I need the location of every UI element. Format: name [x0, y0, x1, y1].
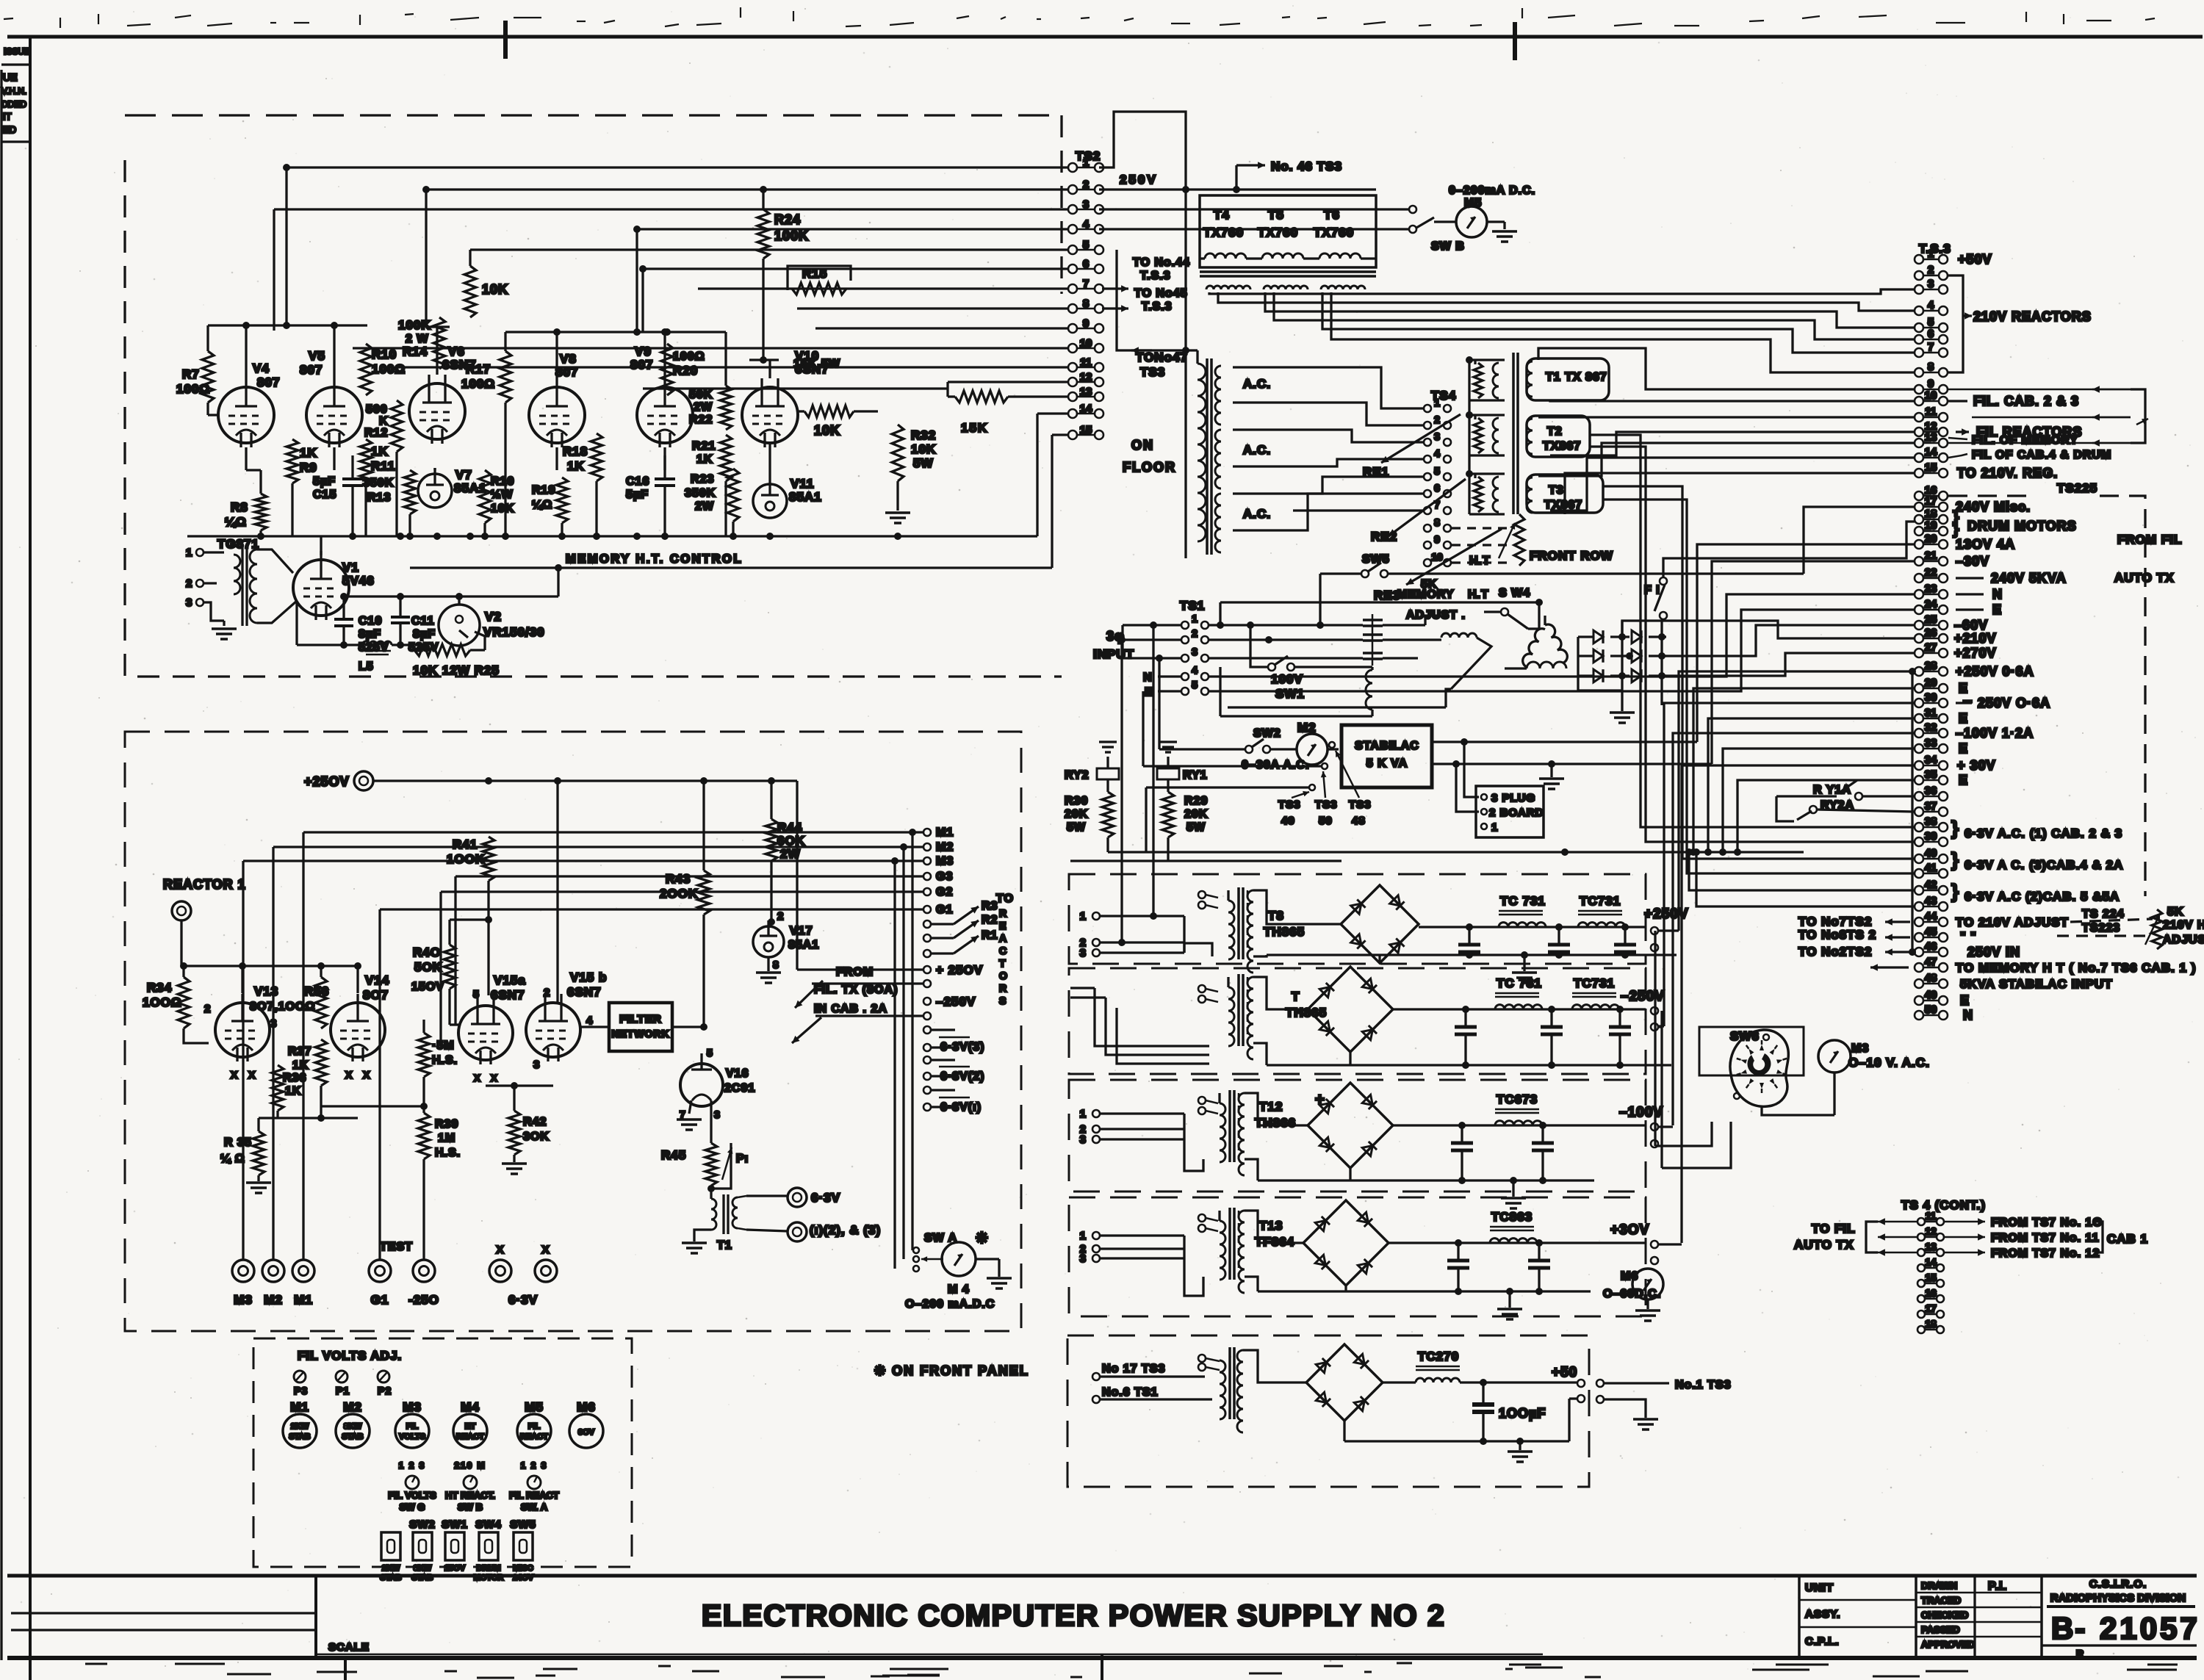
terminal TS4-1	[1424, 405, 1431, 412]
terminal TS3-36	[1915, 792, 1923, 801]
terminal TS3-46	[1915, 948, 1923, 956]
rectifier diode rows	[1578, 635, 1593, 638]
channel input 1	[1092, 1232, 1100, 1239]
svg-text:M6: M6	[1621, 1270, 1638, 1283]
stabilac input terminals	[1329, 742, 1335, 748]
svg-text:G2: G2	[936, 886, 953, 898]
panel meter M3	[395, 1414, 429, 1448]
svg-text:R12: R12	[364, 427, 388, 439]
resistor R18	[591, 433, 602, 481]
toggle switch 2KW STAB	[381, 1532, 400, 1560]
svg-text:APPROVED: APPROVED	[1921, 1639, 1975, 1650]
terminal TS3-40	[1915, 854, 1923, 863]
terminal TS3-11	[1915, 413, 1923, 422]
transformer T TH865	[1228, 987, 1234, 1046]
svg-text:M2: M2	[343, 1400, 362, 1414]
phase wires to contactor	[1209, 624, 1363, 626]
svg-text:TS223: TS223	[2082, 922, 2120, 934]
svg-text:1K: 1K	[371, 444, 389, 458]
svg-text:R: R	[999, 982, 1007, 994]
channel input 2	[1092, 939, 1100, 946]
terminal TS3-31	[1915, 714, 1923, 723]
svg-text:G3: G3	[936, 870, 953, 883]
svg-text:T8: T8	[1268, 909, 1284, 923]
svg-text:P1: P1	[336, 1385, 350, 1396]
svg-text:TO No8TS 2: TO No8TS 2	[1798, 928, 1876, 942]
svg-text:TC863: TC863	[1491, 1210, 1533, 1224]
terminal TS3-2	[1915, 271, 1923, 280]
input link terminals	[1198, 1097, 1206, 1104]
svg-text:M1: M1	[290, 1400, 309, 1414]
svg-text:X: X	[248, 1069, 256, 1081]
terminal TS3-13	[1915, 439, 1923, 447]
svg-text:40: 40	[1925, 847, 1937, 859]
svg-text:TO No2TS2: TO No2TS2	[1798, 945, 1872, 959]
resistor R32	[892, 425, 904, 481]
tube V15a 6SN7	[458, 1006, 513, 1060]
panel meter M6	[569, 1414, 603, 1448]
toggle switch SW5	[514, 1532, 533, 1560]
bracket DRUM MOTORS 18-19	[1948, 519, 1959, 525]
T5 secondary winding	[1264, 286, 1308, 289]
wire to TS2-3	[274, 208, 1068, 210]
wire V4 grid	[206, 403, 209, 415]
svg-text:250V: 250V	[1120, 173, 1158, 187]
terminal TS2-1	[1068, 163, 1077, 172]
svg-text:2KW: 2KW	[382, 1564, 400, 1573]
wires into channel T TH865	[1095, 988, 1209, 1046]
output line T8 TH865	[1419, 926, 1646, 928]
choke TC863	[1490, 1226, 1534, 1228]
svg-text:G1: G1	[936, 904, 953, 916]
svg-text:3: 3	[1192, 646, 1198, 657]
resistor 10K-a	[464, 266, 476, 317]
svg-text:5µF: 5µF	[313, 475, 336, 488]
resistor R42	[508, 1111, 520, 1155]
svg-text:X: X	[363, 1069, 370, 1081]
terminal TS4-13	[1917, 1249, 1925, 1256]
svg-text:250V IN: 250V IN	[1967, 945, 2020, 959]
sheet top border	[7, 35, 2203, 39]
tube V11 85A1	[753, 484, 787, 518]
svg-text:100K: 100K	[774, 228, 809, 243]
svg-text:1 2 3: 1 2 3	[399, 1460, 426, 1471]
meter M5	[1456, 206, 1487, 237]
svg-text:NETWORK: NETWORK	[611, 1028, 669, 1039]
svg-text:TC731: TC731	[1580, 894, 1621, 908]
svg-text:T4: T4	[1214, 208, 1230, 222]
svg-text:500: 500	[366, 403, 388, 416]
wire bus bottom dots	[349, 533, 356, 540]
svg-text:TO No.44: TO No.44	[1133, 256, 1190, 269]
wire to TS2-4	[637, 228, 1068, 230]
svg-text:Pı: Pı	[736, 1153, 749, 1165]
svg-text:R2: R2	[982, 914, 998, 926]
bottom bus T TH865	[1267, 1064, 1671, 1066]
terminal TS3-14	[1915, 453, 1923, 462]
resistor R21	[720, 435, 732, 481]
resistor R44	[766, 819, 777, 861]
svg-text:6SN7: 6SN7	[442, 358, 477, 372]
transformer T12 TH866	[1220, 1103, 1225, 1162]
svg-text:23: 23	[1925, 583, 1937, 595]
svg-text:O–60D.C.: O–60D.C.	[1603, 1288, 1661, 1300]
svg-text:15OV: 15OV	[411, 981, 444, 993]
ground T13 TF864	[1508, 1291, 1510, 1308]
svg-text:1K: 1K	[292, 1059, 309, 1072]
svg-text:17: 17	[1925, 495, 1937, 508]
terminal TS3-30	[1915, 699, 1923, 707]
svg-text:✳: ✳	[976, 1230, 989, 1247]
svg-text:45: 45	[1925, 926, 1937, 938]
svg-text:6·3V A C. (3)CAB.4 & 2A: 6·3V A C. (3)CAB.4 & 2A	[1964, 858, 2123, 872]
channel input 3	[1092, 949, 1100, 956]
TS3-45	[1885, 936, 1910, 938]
resistor R41	[483, 837, 494, 881]
panel meter M5	[517, 1414, 551, 1448]
terminal TS3-37	[1915, 807, 1923, 816]
svg-text:48: 48	[1925, 972, 1937, 984]
svg-text:FROM TS7 No. 11: FROM TS7 No. 11	[1991, 1232, 2099, 1244]
wire N to TS3-23	[1209, 594, 1915, 677]
front panel dashed box	[253, 1338, 632, 1567]
svg-text:}: }	[1951, 817, 1959, 839]
svg-text:1: 1	[186, 547, 192, 559]
terminal TS4-6	[1424, 490, 1431, 497]
svg-text:6·3V: 6·3V	[508, 1293, 538, 1307]
delta winding	[1520, 627, 1545, 667]
svg-text:M4: M4	[461, 1400, 480, 1414]
label 23 N	[1956, 593, 1984, 595]
svg-text:RY2: RY2	[1065, 769, 1090, 782]
wires T1-T3 secondaries to TS3 9-14	[1538, 348, 1915, 389]
V10 anode wire	[762, 190, 764, 209]
wire to TS2-15	[1052, 433, 1068, 436]
svg-text:39: 39	[1925, 830, 1937, 843]
terminal TS3-20	[1915, 540, 1923, 549]
ground at M5	[1503, 222, 1505, 229]
toggle switch SW1	[445, 1532, 464, 1560]
svg-text:29: 29	[1925, 677, 1937, 689]
svg-text:V8: V8	[560, 352, 577, 366]
svg-text:+3OV: +3OV	[1610, 1222, 1649, 1238]
svg-text:O–10 V. A.C.: O–10 V. A.C.	[1848, 1056, 1930, 1070]
terminal TS3-47	[1915, 963, 1923, 972]
svg-text:S: S	[999, 995, 1006, 1006]
svg-text:1K: 1K	[285, 1085, 301, 1097]
svg-text:DRUM: DRUM	[477, 1564, 501, 1573]
svg-text:44: 44	[1925, 910, 1937, 923]
label 22 240V 5KVA	[1956, 577, 1984, 579]
svg-text:31: 31	[1925, 707, 1937, 719]
svg-text:T6: T6	[1324, 208, 1340, 222]
svg-text:R15: R15	[802, 267, 827, 281]
svg-text:X: X	[474, 1072, 481, 1084]
svg-text:STAB: STAB	[411, 1573, 433, 1582]
svg-text:C10: C10	[359, 615, 382, 627]
transformer T3 TX867	[1527, 475, 1603, 513]
svg-text:FIL: FIL	[406, 1422, 419, 1431]
vertical feeders	[1184, 190, 1186, 350]
svg-text:3OV: 3OV	[578, 1428, 595, 1437]
tube V8 807	[529, 387, 585, 443]
svg-text:RADIOPHYSICS DIVISION: RADIOPHYSICS DIVISION	[2050, 1592, 2186, 1604]
svg-text:RY1: RY1	[1183, 769, 1208, 782]
wire y820 to SW4	[1220, 601, 1539, 603]
svg-text:10K 12W R25: 10K 12W R25	[413, 663, 500, 677]
svg-text:No.1 TS3: No.1 TS3	[1675, 1379, 1731, 1391]
svg-text:R: R	[999, 907, 1007, 919]
svg-text:TS1: TS1	[1180, 599, 1205, 613]
svg-text:M5: M5	[1464, 197, 1482, 209]
terminal TS3-43	[1915, 902, 1923, 911]
terminal TS4-18	[1917, 1326, 1925, 1333]
T5 primary winding	[1262, 253, 1303, 259]
terminal TS3-28	[1915, 667, 1923, 676]
svg-text:16: 16	[1925, 1287, 1937, 1299]
svg-text:ON: ON	[1131, 438, 1154, 453]
svg-text:VOLTS: VOLTS	[399, 1432, 425, 1441]
svg-text:E: E	[1960, 993, 1970, 1008]
terminal TS3-45	[1915, 933, 1923, 942]
terminal TS3-6	[1915, 335, 1923, 344]
tube V5 807	[306, 387, 362, 443]
resistor R11	[360, 439, 372, 483]
svg-text:SW1: SW1	[442, 1518, 468, 1531]
svg-text:5V46: 5V46	[342, 574, 375, 588]
terminal TS4-2	[1424, 422, 1431, 429]
svg-text:5K: 5K	[2167, 906, 2183, 918]
svg-text:+ 25OV: + 25OV	[936, 963, 983, 977]
wire ch1 input verticals	[1152, 625, 1154, 916]
ground near plug board	[1550, 764, 1552, 777]
svg-text:2 BOARD: 2 BOARD	[1489, 807, 1544, 819]
svg-text:5KVA STABILAC INPUT: 5KVA STABILAC INPUT	[1960, 977, 2113, 991]
svg-text:AUTO TX: AUTO TX	[1794, 1238, 1854, 1252]
wire -250V to TS3-30	[1658, 1025, 1664, 1027]
svg-text:TX867: TX867	[1543, 440, 1581, 453]
svg-text:6: 6	[1928, 328, 1934, 340]
ch5 output terminals	[1577, 1380, 1585, 1387]
svg-text:10: 10	[1431, 551, 1443, 563]
svg-text:2: 2	[186, 577, 192, 590]
svg-text:T1 TX 867: T1 TX 867	[1546, 371, 1607, 383]
svg-text:8: 8	[1928, 361, 1934, 373]
svg-text:T.S.3: T.S.3	[1142, 300, 1172, 313]
terminal TS3-21	[1915, 557, 1923, 566]
svg-text:H.T: H.T	[1468, 588, 1489, 601]
pots P3 P1 P2	[294, 1371, 306, 1382]
svg-text:O: O	[999, 970, 1008, 981]
svg-text:–250V: –250V	[936, 995, 976, 1009]
input link terminals	[1198, 891, 1206, 898]
svg-text:R10: R10	[372, 347, 397, 361]
terminal TS3-3	[1915, 285, 1923, 294]
svg-text:+270V: +270V	[1954, 646, 1997, 660]
svg-text:ED: ED	[3, 124, 16, 135]
wire F1 to TS3-22	[1663, 522, 1915, 577]
svg-text:9: 9	[1434, 533, 1440, 545]
svg-text:R8: R8	[231, 500, 248, 514]
svg-text:P.L: P.L	[1988, 1580, 2007, 1593]
svg-text:V14: V14	[365, 973, 389, 987]
svg-text:V.H.N.: V.H.N.	[1, 86, 26, 96]
T6 primary winding	[1319, 253, 1361, 259]
svg-text:R Y1A: R Y1A	[1813, 784, 1851, 796]
svg-text:210V REACTORS: 210V REACTORS	[1973, 309, 2092, 324]
svg-text:½W: ½W	[491, 489, 513, 501]
choke TC 731	[1499, 910, 1543, 912]
svg-text:7: 7	[1928, 341, 1934, 353]
terminal TS4-14	[1917, 1264, 1925, 1272]
svg-text:36: 36	[1925, 785, 1937, 797]
svg-text:H.S.: H.S.	[432, 1054, 458, 1067]
svg-text:M2: M2	[264, 1293, 283, 1307]
svg-text:E: E	[999, 920, 1006, 931]
wires on-floor to TS4	[1233, 367, 1423, 408]
bridge rectifier T8 TH865	[1341, 885, 1419, 963]
terminal TS3-8	[1915, 368, 1923, 377]
svg-text:FIL: FIL	[528, 1422, 541, 1431]
resistor R29	[1167, 779, 1169, 792]
resistor R7	[202, 351, 214, 403]
svg-text:1OOK: 1OOK	[447, 852, 485, 866]
tube V10 6SN7	[742, 387, 798, 443]
svg-text:14: 14	[1925, 1256, 1937, 1268]
terminal TS1-2	[1181, 636, 1189, 643]
resistor R39	[418, 1113, 430, 1159]
wire V13/V14 anode bus	[181, 965, 358, 967]
channel input 1	[1092, 1110, 1100, 1117]
svg-text:T.S.3: T.S.3	[1140, 270, 1170, 282]
svg-text:6SN7: 6SN7	[567, 985, 602, 999]
svg-text:+: +	[1315, 1090, 1325, 1108]
svg-text:H.S.: H.S.	[435, 1147, 461, 1159]
svg-text:R18: R18	[563, 444, 588, 458]
output terminal T12 TH866	[1651, 1123, 1658, 1131]
choke TC270	[1383, 1381, 1416, 1383]
svg-text:50K: 50K	[689, 389, 713, 401]
input link terminals	[1198, 985, 1206, 992]
svg-text:22: 22	[1925, 566, 1937, 579]
svg-text:1: 1	[1491, 821, 1498, 834]
tube V7 85A1	[418, 474, 452, 508]
svg-text:C15: C15	[313, 489, 336, 501]
svg-text:TS3: TS3	[1278, 798, 1301, 811]
labels FIL CAB lines 10-14	[1948, 400, 1967, 402]
svg-text:25: 25	[1925, 613, 1937, 626]
wire +250V to TS3-28 with bus	[1911, 671, 1913, 952]
svg-text:807: 807	[555, 365, 578, 379]
terminal TS3-38	[1915, 823, 1923, 832]
svg-text:5 K VA: 5 K VA	[1366, 757, 1408, 770]
wires 6.3V windings to TS3 38-43	[1590, 435, 1915, 827]
transformer T1 TX867	[1512, 353, 1515, 514]
svg-text:2 W: 2 W	[406, 333, 428, 345]
svg-text:IN CAB . 2A: IN CAB . 2A	[814, 1003, 887, 1015]
channel input No6 TS1	[1092, 1396, 1100, 1403]
anode bus V4/V5	[208, 324, 367, 326]
svg-text:V10: V10	[795, 349, 819, 363]
terminal TS4-4	[1424, 455, 1431, 463]
filter capacitors T TH865	[1462, 1006, 1469, 1013]
vertical drops to SW A	[911, 832, 913, 1250]
svg-text:10K: 10K	[482, 282, 508, 297]
wire -100V to TS3-32	[1658, 1125, 1673, 1128]
terminal TS3-42	[1915, 886, 1923, 895]
bus wire lower	[410, 566, 1052, 569]
TS4 cont arrows right	[1944, 1221, 1985, 1223]
svg-text:TO No45: TO No45	[1134, 287, 1188, 300]
svg-text:2C91: 2C91	[724, 1082, 755, 1095]
svg-text:TX760: TX760	[1314, 226, 1354, 239]
svg-text:FLOOR: FLOOR	[1123, 460, 1176, 475]
terminal TS3-41	[1915, 869, 1923, 878]
selector SW B	[464, 1476, 477, 1489]
svg-text:+250V 0·6A: +250V 0·6A	[1956, 664, 2034, 679]
svg-text:E: E	[1992, 602, 2002, 617]
svg-text:TH865: TH865	[1286, 1006, 1327, 1020]
svg-text:–: –	[1963, 691, 1973, 710]
wires TS2 to on-floor	[1117, 249, 1205, 250]
svg-text:TG871: TG871	[217, 537, 259, 551]
svg-text:5W: 5W	[1186, 821, 1206, 834]
svg-text:E: E	[1959, 773, 1968, 787]
svg-text:V2: V2	[485, 610, 502, 624]
wire V1 grid	[257, 549, 293, 573]
svg-text:1OOµF: 1OOµF	[1499, 1406, 1546, 1421]
bus y963	[1228, 706, 1446, 708]
channel input No17 TS3	[1092, 1373, 1100, 1380]
svg-text:6·3V: 6·3V	[811, 1191, 840, 1205]
svg-text:TC 731: TC 731	[1497, 976, 1542, 990]
terminal TS4-7	[1424, 507, 1431, 514]
svg-text:S W4: S W4	[1499, 587, 1530, 599]
svg-text:STAB: STAB	[380, 1573, 401, 1582]
resistor R13	[404, 470, 416, 514]
label 30: -250V 0.6A with dash	[1956, 702, 1972, 704]
choke TC731	[1578, 910, 1622, 912]
svg-text:1: 1	[1434, 397, 1440, 408]
meter M3	[1818, 1040, 1851, 1072]
svg-text:TEST: TEST	[380, 1241, 413, 1253]
svg-text:MEMORY: MEMORY	[1397, 588, 1454, 601]
svg-text:2OOK: 2OOK	[660, 887, 698, 901]
svg-text:RE1: RE1	[1363, 465, 1389, 479]
terminal TS4-5	[1424, 473, 1431, 480]
terminal TS2-8	[1068, 304, 1077, 313]
svg-text:FIL VOLTS ADJ.: FIL VOLTS ADJ.	[298, 1349, 402, 1363]
svg-text:M 4: M 4	[948, 1283, 970, 1296]
svg-text:R41: R41	[453, 837, 478, 851]
svg-text:SW1: SW1	[1275, 687, 1305, 701]
svg-text:-25O: -25O	[408, 1293, 439, 1307]
svg-text:P3: P3	[294, 1385, 308, 1396]
svg-text:6OK: 6OK	[777, 834, 805, 848]
svg-text:8: 8	[773, 959, 779, 970]
supply channel T TH865 dashed box	[1069, 968, 1646, 1074]
wire to TS2-6	[643, 267, 1068, 270]
svg-text:REACTOR 1: REACTOR 1	[163, 877, 246, 892]
svg-text:24: 24	[1925, 598, 1937, 610]
svg-text:X: X	[496, 1244, 504, 1256]
supply channel T8 TH865 dashed box	[1069, 874, 1646, 964]
svg-text:A: A	[999, 932, 1007, 944]
tube V1 5V46	[320, 536, 322, 555]
selector SW. A	[527, 1476, 541, 1489]
relay RE1 coil with resistor	[1474, 360, 1476, 364]
svg-text:18: 18	[1925, 1318, 1937, 1330]
